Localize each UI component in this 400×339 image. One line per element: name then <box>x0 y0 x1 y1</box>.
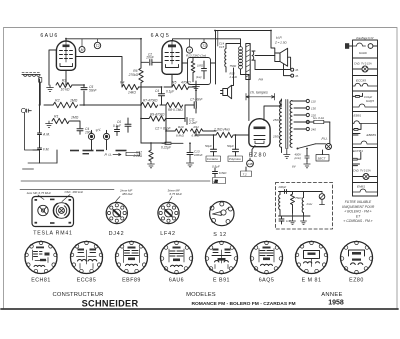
svg-text:250V: 250V <box>272 118 281 122</box>
filter cap 200pF <box>278 185 287 194</box>
wire anode bus V1 <box>66 39 149 63</box>
svg-text:ECH81: ECH81 <box>353 149 363 153</box>
svg-text:100nF: 100nF <box>194 153 203 157</box>
footer text models list <box>191 301 295 307</box>
junction node 5 <box>140 118 142 120</box>
junction node 13 <box>214 30 216 32</box>
potentiometer P.S. <box>103 130 109 139</box>
terminal M1 <box>291 68 299 72</box>
wire R5 <box>164 81 196 87</box>
heater bars <box>353 134 361 136</box>
svg-text:14kΩ: 14kΩ <box>128 91 136 95</box>
electrolytic C17 <box>227 135 239 156</box>
heater divider 5 <box>353 147 378 149</box>
switch caps AM FM <box>38 79 42 163</box>
heater lamp 1 <box>353 66 378 72</box>
slider bars P.U. switch <box>70 150 127 155</box>
heater rung 6AQ5 <box>353 104 378 107</box>
wire R6 <box>140 62 142 105</box>
svg-text:(env): (env) <box>295 156 301 160</box>
filter bottom wire <box>279 215 311 217</box>
resistor R9 <box>149 113 166 122</box>
node trimmer <box>21 108 31 112</box>
wire test point leads <box>82 39 204 47</box>
dimension arrow ch lampes <box>246 94 275 101</box>
wire R4 <box>139 86 162 88</box>
label 400V <box>295 153 303 160</box>
resistor R10 <box>175 125 187 138</box>
wire anode bus V2 <box>173 31 272 44</box>
svg-text:ANNEE: ANNEE <box>321 292 342 298</box>
svg-text:P. U.: P. U. <box>105 153 113 157</box>
ground mains cap <box>304 163 310 168</box>
label 6AU6 base <box>169 277 184 283</box>
svg-text:E B91: E B91 <box>213 277 230 283</box>
capacitor C8 <box>161 142 183 149</box>
resistor R4 <box>120 81 139 95</box>
heater label EB91 <box>354 114 362 118</box>
tube base EZ80 <box>340 241 373 274</box>
svg-text:1MΩ: 1MΩ <box>71 116 79 120</box>
label TESLA RM41 <box>33 231 72 237</box>
leader 3eme MF <box>169 197 173 203</box>
test point T1 <box>201 42 207 48</box>
svg-text:6V: 6V <box>292 165 297 169</box>
wire transformer taps <box>282 99 307 153</box>
svg-text:480 kHz: 480 kHz <box>122 192 133 196</box>
filter antenna jack <box>319 192 325 205</box>
speaker HP <box>275 48 288 66</box>
heater divider 1 <box>353 57 378 59</box>
wire bplus second line <box>217 31 219 47</box>
svg-text:ROMANCE FM - BOLERO FM - CZARD: ROMANCE FM - BOLERO FM - CZARDAS FM <box>191 301 295 307</box>
svg-text:C7·50nF: C7·50nF <box>190 98 203 102</box>
tube base ECC85 <box>70 241 103 274</box>
junction box J3 <box>241 167 252 177</box>
label 6V <box>292 165 297 169</box>
wire R9 <box>141 105 185 143</box>
wire bottom left <box>33 150 57 163</box>
svg-text:PM: PM <box>259 78 264 82</box>
transformer core <box>246 44 250 80</box>
wire R3 to C5 <box>66 70 84 105</box>
resistor R5 <box>172 81 191 90</box>
label ch lampes <box>250 90 268 94</box>
label 250V lower <box>272 135 281 139</box>
junction node 11 <box>235 134 237 136</box>
resistor R1 <box>52 115 79 124</box>
box label C17 <box>228 156 243 162</box>
svg-text:110: 110 <box>311 99 316 103</box>
svg-text:SECT: SECT <box>318 156 327 160</box>
filter dashed box <box>276 183 333 230</box>
wire R14 <box>196 131 249 135</box>
wire antenna column <box>23 113 58 169</box>
filter resistor 75k <box>291 192 302 214</box>
heater divider 4 <box>353 111 378 113</box>
test point T2 <box>94 42 100 48</box>
svg-text:J2: J2 <box>213 179 218 183</box>
svg-text:200pF: 200pF <box>278 185 287 189</box>
svg-text:P.V.: P.V. <box>95 127 102 133</box>
junction node 4 <box>140 104 142 106</box>
svg-text:6AQ5: 6AQ5 <box>259 277 275 283</box>
capacitor near P.S. <box>115 126 120 136</box>
junction node 3 <box>83 104 85 106</box>
small tag box node <box>213 178 226 184</box>
label DJ42 <box>109 231 125 237</box>
svg-text:ET: ET <box>356 214 361 218</box>
heater rung EBF89 <box>353 141 378 144</box>
heater divider 3 <box>353 90 378 92</box>
filter cap 1nF <box>279 216 291 224</box>
tube base ECH81 <box>25 241 58 274</box>
svg-text:« BOLERO - FM »: « BOLERO - FM » <box>345 210 372 214</box>
heater label 6AQ5 <box>366 99 374 103</box>
svg-text:M.: M. <box>296 74 299 78</box>
svg-text:SCHNEIDER: SCHNEIDER <box>82 298 139 308</box>
small speaker tweeter <box>221 85 232 98</box>
svg-text:6.8kΩ: 6.8kΩ <box>219 171 227 175</box>
svg-text:10 kΩ: 10 kΩ <box>61 88 70 92</box>
tube base EM81 <box>295 241 328 274</box>
svg-text:EB91: EB91 <box>354 114 362 118</box>
svg-text:0.1μF: 0.1μF <box>113 124 122 128</box>
svg-text:OSC. 480 kHz: OSC. 480 kHz <box>65 190 84 194</box>
heater cap 0.01 <box>353 93 373 99</box>
resistor R11 <box>191 125 203 138</box>
tap terminal 110 <box>306 99 316 103</box>
svg-text:M.: M. <box>296 68 299 72</box>
label 750 <box>230 64 238 68</box>
svg-text:0.22μF: 0.22μF <box>161 146 172 150</box>
junction node 17 <box>140 38 142 40</box>
svg-text:7.2: 7.2 <box>243 172 248 176</box>
svg-text:ECC85: ECC85 <box>77 277 97 283</box>
label EB91 <box>213 277 230 283</box>
RM41 coil right <box>53 203 69 219</box>
svg-text:50nF: 50nF <box>89 89 98 93</box>
svg-text:6AU6: 6AU6 <box>169 277 184 283</box>
label EBF89 <box>122 277 141 283</box>
svg-text:240: 240 <box>310 127 316 131</box>
note OSC <box>65 190 84 194</box>
wire R10 R11 <box>166 119 216 143</box>
wire EZ80 top <box>264 100 281 121</box>
junction node 15 <box>270 30 272 32</box>
svg-text:750Ω: 750Ω <box>230 64 238 68</box>
heater rung ECC85 <box>353 83 378 86</box>
filter coil L2 <box>302 192 312 217</box>
test point M <box>79 47 85 53</box>
heater label ECC85 <box>356 79 366 83</box>
fuse mains <box>306 116 330 124</box>
svg-text:R11: R11 <box>194 125 200 129</box>
power transformer left winding <box>280 101 282 148</box>
heater divider 2 <box>353 75 378 77</box>
box secteur <box>316 150 329 161</box>
svg-text:C2 = 82pF: C2 = 82pF <box>155 127 171 131</box>
label R13 <box>186 54 206 58</box>
heater cap ECH81 <box>353 152 361 160</box>
label 250V upper <box>272 118 281 122</box>
heater label cad2 <box>353 168 371 172</box>
wire bplus to EZ80 <box>241 69 249 121</box>
wire R12 top <box>141 143 166 150</box>
svg-text:Polymère: Polymère <box>229 157 241 161</box>
tap terminal 220 <box>306 113 316 117</box>
svg-text:FILTRE VALABLE: FILTRE VALABLE <box>345 200 372 204</box>
capacitor C5 <box>81 85 98 93</box>
ground R1 <box>46 121 53 127</box>
svg-text:M: M <box>81 48 84 52</box>
leader 1ere MF <box>38 195 44 200</box>
svg-text:T1: T1 <box>202 44 206 48</box>
svg-text:ch. lampes: ch. lampes <box>250 90 268 94</box>
svg-text:CAD. 7V 0.15A: CAD. 7V 0.15A <box>353 168 371 172</box>
pilot lamp <box>316 122 332 150</box>
svg-text:R13 23kΩ (1w): R13 23kΩ (1w) <box>186 54 206 58</box>
heater lamp 2 <box>353 174 378 180</box>
capacitor C4 <box>77 127 93 135</box>
svg-text:fus. 0.2A: fus. 0.2A <box>313 116 324 120</box>
RM41 trimmer left <box>38 205 48 215</box>
heater bottom <box>353 195 378 197</box>
tube base EBF89 <box>115 241 148 274</box>
junction node 12 <box>280 105 282 107</box>
junction node 6 <box>161 86 163 88</box>
svg-text:P.U.: P.U. <box>322 137 328 141</box>
tube V3 EZ80 <box>249 119 270 147</box>
heater label ECH81 <box>353 149 363 153</box>
junction node 7 <box>165 130 167 132</box>
svg-text:R4: R4 <box>120 81 124 85</box>
filter ground 2 <box>301 216 307 225</box>
heater cap EB91 <box>353 123 362 130</box>
svg-text:EBF89: EBF89 <box>367 133 377 137</box>
svg-text:MODELES: MODELES <box>186 292 216 298</box>
filter coil L1 <box>279 192 280 217</box>
svg-text:6AU6: 6AU6 <box>359 51 367 55</box>
wire input left <box>39 82 41 105</box>
svg-text:R10: R10 <box>178 125 184 129</box>
svg-text:CAD. 7V 0.15A: CAD. 7V 0.15A <box>354 62 372 66</box>
svg-text:ECC85: ECC85 <box>356 79 366 83</box>
socket S12 <box>210 201 234 225</box>
label 6AQ5 <box>151 33 171 39</box>
socket LF42 <box>158 202 179 223</box>
junction node 9 <box>195 134 197 136</box>
heater label cad1 <box>354 62 372 66</box>
tube V2 6AQ5 <box>162 41 182 75</box>
svg-text:ECH81: ECH81 <box>31 277 51 283</box>
svg-text:1MΩ: 1MΩ <box>197 64 204 68</box>
svg-text:2.2kΩ (4w): 2.2kΩ (4w) <box>213 128 230 132</box>
junction node 8 <box>189 142 191 144</box>
IF unit TESLA RM41 box <box>32 197 74 227</box>
tap terminal 130 <box>306 106 316 110</box>
label 6AQ5 base <box>259 277 275 283</box>
svg-text:6AQ5: 6AQ5 <box>366 99 374 103</box>
resistor R2 <box>53 99 78 108</box>
screen network can <box>188 58 211 85</box>
ground C13 <box>186 161 193 167</box>
svg-text:TESLA RM41: TESLA RM41 <box>33 231 72 237</box>
svg-text:S 12: S 12 <box>213 232 227 238</box>
label 0.5uF <box>212 165 220 169</box>
ground R12 <box>148 161 155 168</box>
svg-text:1MΩ: 1MΩ <box>70 99 78 103</box>
label EM81 <box>302 277 322 283</box>
svg-text:(1w): (1w) <box>196 75 202 79</box>
svg-text:EBF89: EBF89 <box>122 277 141 283</box>
label R15 <box>229 72 238 79</box>
wire R2 bus <box>44 104 141 106</box>
heater label EM81 <box>357 185 365 189</box>
heater rung EM81 <box>353 189 378 192</box>
wire tweeter <box>232 68 234 86</box>
resistor R12 vertical <box>133 150 154 161</box>
choke coil primary feed <box>225 44 240 73</box>
label LF42 <box>160 231 176 237</box>
svg-text:R2: R2 <box>55 99 60 103</box>
footer text CONSTRUCTEUR <box>52 292 103 298</box>
labels AM FM <box>42 133 50 152</box>
capacitor C6 <box>113 118 131 132</box>
capacitor C3 coupling <box>145 53 162 66</box>
heater label 6AU6 <box>359 51 367 55</box>
note 3eme MF <box>168 189 183 197</box>
svg-text:A.M.: A.M. <box>42 133 50 137</box>
label PU <box>322 137 328 141</box>
tube base 6AU6 <box>160 241 193 274</box>
filter note text <box>342 200 375 223</box>
resistor R8 <box>166 102 183 112</box>
wire EZ80 bottom <box>250 146 255 161</box>
svg-text:75kΩ: 75kΩ <box>295 196 301 200</box>
svg-text:20nF: 20nF <box>145 56 155 60</box>
wire grid V1 <box>49 50 57 85</box>
label ECC85 <box>77 277 97 283</box>
wire pot leads <box>92 140 107 150</box>
wire cathode V2 <box>171 75 173 88</box>
electrolytic C16 <box>205 135 217 156</box>
junction node 20 <box>39 104 41 106</box>
mains switch <box>297 144 316 150</box>
box label C16 <box>206 156 221 162</box>
svg-text:1958: 1958 <box>328 300 344 307</box>
capacitor mains <box>305 149 309 163</box>
svg-text:CONSTRUCTEUR: CONSTRUCTEUR <box>52 292 103 298</box>
tap terminal 240 <box>306 127 316 131</box>
svg-text:6.8kΩ: 6.8kΩ <box>176 134 185 138</box>
wire speaker terminals <box>255 31 291 76</box>
separator line lower <box>20 189 114 191</box>
junction node 18 <box>150 142 152 144</box>
filter top wire <box>279 191 323 193</box>
leader 2eme MF <box>115 197 120 203</box>
label P.V. <box>95 127 102 133</box>
svg-text:LF42: LF42 <box>160 231 176 237</box>
test point M2 <box>186 47 192 53</box>
resistor R14 <box>213 128 233 138</box>
junction node 1 <box>65 38 67 40</box>
heater label EBF89 <box>367 133 377 137</box>
bottom border thick line <box>1 308 398 310</box>
power transformer core <box>286 100 288 149</box>
svg-text:H.P.: H.P. <box>276 36 282 40</box>
svg-text:250V: 250V <box>272 135 281 139</box>
svg-text:EM81: EM81 <box>357 185 365 189</box>
connector open bar <box>126 152 140 155</box>
svg-text:E M 81: E M 81 <box>302 277 322 283</box>
heater ladder rails <box>353 40 378 196</box>
svg-text:1ère MF. 6,75 MHz: 1ère MF. 6,75 MHz <box>27 191 52 195</box>
junction node 10 <box>213 134 215 136</box>
svg-text:DJ42: DJ42 <box>109 231 125 237</box>
note 1ere MF <box>27 191 52 195</box>
heater bars 2 <box>353 164 360 166</box>
svg-text:T2: T2 <box>96 44 100 48</box>
transformer secondary <box>252 51 255 60</box>
svg-text:C15: C15 <box>219 45 225 49</box>
note 2eme MF <box>119 189 133 197</box>
wire grid lead V1 <box>76 57 122 88</box>
svg-text:M: M <box>188 48 191 52</box>
ground can <box>193 85 200 91</box>
svg-text:chauffage 6,3V: chauffage 6,3V <box>356 36 374 40</box>
footer text MODELES <box>186 292 216 298</box>
ground transformer <box>284 149 290 159</box>
svg-text:R5: R5 <box>172 81 176 85</box>
separator line upper <box>21 180 210 182</box>
svg-text:24B: 24B <box>246 162 252 166</box>
ground R3 <box>47 85 54 91</box>
IF transformer input can <box>22 72 42 82</box>
svg-text:Fontaine: Fontaine <box>207 157 218 161</box>
label 6AU6 <box>40 33 58 39</box>
long bus y105 <box>80 87 196 119</box>
capacitor C4b <box>155 87 175 105</box>
heater rung V1 <box>353 43 378 48</box>
indicator circle 24B <box>246 160 253 167</box>
label PM <box>259 78 264 82</box>
output transformer primary coil <box>239 44 243 69</box>
junction node 2 <box>83 84 85 86</box>
capacitor C13 <box>187 143 203 161</box>
footer text 1958 <box>328 300 344 307</box>
resistor R3 <box>56 79 72 92</box>
heater feed blob <box>345 43 353 49</box>
capacitor C7 <box>190 98 203 109</box>
power transformer right winding <box>290 101 292 148</box>
svg-text:6,75 MHz: 6,75 MHz <box>170 192 183 196</box>
potentiometer P.V. <box>88 130 94 139</box>
label EZ80 base <box>349 277 364 283</box>
tube base 6AQ5 <box>250 241 283 274</box>
label S12 <box>213 232 227 238</box>
arrow P.U. <box>113 154 121 156</box>
leader OSC <box>62 195 70 202</box>
svg-text:130: 130 <box>311 106 316 110</box>
svg-text:470kΩ: 470kΩ <box>181 81 191 85</box>
heater rung EB91 <box>353 121 378 124</box>
svg-text:F.M.: F.M. <box>43 148 49 152</box>
svg-text:6AQ5: 6AQ5 <box>151 33 171 39</box>
label P.U. <box>105 153 113 157</box>
svg-text:R9·470kΩ: R9·470kΩ <box>150 113 165 117</box>
label ECH81 <box>31 277 51 283</box>
